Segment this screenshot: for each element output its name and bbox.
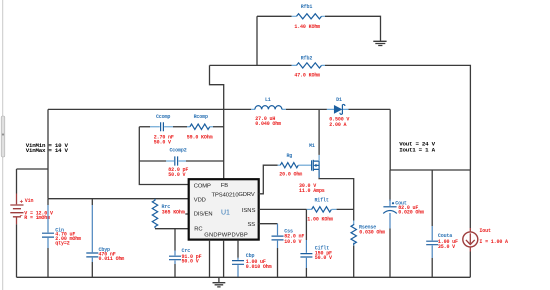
svg-text:COMP: COMP	[194, 183, 211, 189]
wire SS	[259, 223, 278, 225]
transistor M1 (NMOS)	[312, 155, 320, 178]
svg-text:Rg: Rg	[286, 153, 292, 159]
wire RC pin	[155, 228, 189, 230]
svg-text:R = 1mOhm: R = 1mOhm	[24, 215, 50, 221]
svg-text:U1: U1	[221, 210, 230, 217]
wire Vout node line	[390, 169, 470, 171]
svg-text:VinMax = 14 V: VinMax = 14 V	[26, 147, 69, 154]
svg-text:2.00 A: 2.00 A	[329, 122, 346, 128]
wire GDRV to Rg	[259, 165, 278, 194]
svg-text:Iout1 = 1 A: Iout1 = 1 A	[399, 146, 435, 153]
wire input left rail down	[47, 109, 49, 198]
voltage source Vin	[10, 194, 23, 225]
svg-text:FB: FB	[221, 183, 228, 189]
svg-text:0.030 Ohm: 0.030 Ohm	[359, 229, 385, 235]
svg-text:Ccomp2: Ccomp2	[169, 147, 186, 153]
wire COMP branch riser	[139, 127, 188, 185]
wire ground rail	[17, 276, 471, 278]
resistor Rg	[278, 163, 312, 168]
svg-text:50.0 V: 50.0 V	[154, 139, 171, 145]
resistor Rrc	[152, 199, 157, 228]
svg-text:0.040 Ohm: 0.040 Ohm	[255, 121, 281, 127]
svg-text:Ccomp: Ccomp	[156, 114, 170, 120]
wire FB riser	[210, 65, 224, 179]
svg-text:59.0 KOhm: 59.0 KOhm	[187, 135, 213, 141]
capacitor Cin	[42, 199, 54, 278]
capacitor Crc	[169, 229, 181, 278]
wire GND pin	[209, 240, 211, 277]
ground (below IC)	[213, 277, 226, 287]
svg-text:50.0 V: 50.0 V	[168, 172, 185, 178]
svg-text:0.010 Ohm: 0.010 Ohm	[246, 264, 272, 270]
window left border line	[2, 0, 4, 290]
diode D1 (schottky)	[327, 104, 349, 114]
capacitor Css	[272, 224, 284, 278]
wire battery branch	[17, 169, 49, 194]
svg-text:Riflt: Riflt	[314, 197, 328, 203]
svg-text:1.40 KOhm: 1.40 KOhm	[294, 24, 320, 30]
wire VDD feed	[48, 198, 189, 200]
wire Rfb1 left + vertical to Rfb2 node	[257, 16, 292, 65]
svg-text:50.0 V: 50.0 V	[182, 259, 199, 265]
svg-text:50.0 V: 50.0 V	[315, 255, 332, 261]
svg-text:35.0 V: 35.0 V	[438, 244, 455, 250]
capacitor Ccomp2	[139, 156, 223, 165]
capacitor Cbyp	[86, 199, 98, 278]
wire PWPD pin	[223, 240, 225, 277]
svg-text:Rcomp: Rcomp	[194, 114, 208, 120]
capacitor Cbp	[232, 240, 244, 277]
svg-text:VDD: VDD	[194, 198, 206, 204]
op-amp U1 TPS40210GDRV box	[189, 179, 259, 239]
svg-text:Vin: Vin	[25, 198, 34, 204]
svg-text:SS: SS	[248, 222, 256, 228]
svg-text:20.0 Ohm: 20.0 Ohm	[279, 171, 302, 177]
svg-text:GDRV: GDRV	[238, 192, 254, 198]
svg-text:Iout: Iout	[479, 228, 491, 234]
resistor Rsense	[351, 221, 356, 246]
svg-text:11.0 Amps: 11.0 Amps	[299, 188, 325, 194]
inductor L1	[251, 106, 286, 110]
svg-text:qty=2: qty=2	[55, 241, 69, 247]
svg-text:0.011 Ohm: 0.011 Ohm	[99, 256, 125, 262]
svg-text:GNDPWPDVBP: GNDPWPDVBP	[204, 232, 248, 238]
capacitor Ciflt	[300, 209, 312, 277]
svg-text:Couta: Couta	[438, 233, 452, 239]
wire Rsense to ground	[353, 246, 355, 278]
wire Rfb2 left	[210, 64, 292, 66]
capacitor Cout (polarized)	[383, 170, 397, 277]
svg-text:Rfb1: Rfb1	[301, 4, 313, 10]
wire Rfb2 right to Vout node	[325, 65, 470, 170]
svg-text:1.00 KOhm: 1.00 KOhm	[307, 217, 333, 223]
svg-text:ISNS: ISNS	[242, 208, 256, 214]
svg-text:DIS/EN: DIS/EN	[194, 212, 213, 218]
svg-text:M1: M1	[309, 143, 315, 149]
resistor Riflt	[306, 207, 353, 212]
wire drain	[318, 109, 320, 154]
scrollbar thumb	[1, 116, 5, 157]
wire source to Rsense	[319, 178, 354, 221]
resistor Rfb2	[292, 63, 326, 68]
capacitor Ccomp	[139, 122, 187, 131]
svg-text:365 KOhm: 365 KOhm	[162, 210, 185, 216]
svg-text:47.0 KOhm: 47.0 KOhm	[294, 73, 320, 79]
svg-text:10.0 V: 10.0 V	[284, 239, 301, 245]
ground (top, right of Rfb1)	[373, 41, 386, 45]
current source Iout	[463, 170, 478, 277]
wire Rfb1 right to ground	[325, 16, 381, 41]
svg-text:TPS40210: TPS40210	[212, 193, 239, 199]
wire ISNS	[259, 208, 307, 210]
svg-text:D1: D1	[336, 97, 342, 103]
wire main input rail	[48, 109, 390, 170]
resistor Rfb1	[292, 14, 326, 19]
capacitor Couta	[426, 170, 438, 277]
svg-text:L1: L1	[265, 97, 271, 103]
wire DIS/EN stub	[185, 213, 188, 215]
svg-text:I = 1.00 A: I = 1.00 A	[479, 239, 508, 245]
svg-text:0.020 Ohm: 0.020 Ohm	[398, 210, 424, 216]
svg-text:Rfb2: Rfb2	[301, 56, 313, 62]
wire battery bottom	[16, 224, 18, 277]
resistor Rcomp	[187, 124, 224, 129]
svg-text:RC: RC	[194, 227, 202, 233]
